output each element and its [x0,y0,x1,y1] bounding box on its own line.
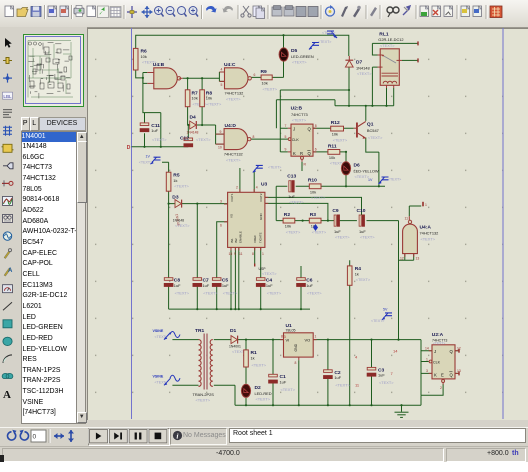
svg-text:5: 5 [285,135,287,139]
wire R4 column [349,260,351,405]
wire junctions [142,34,403,406]
svg-text:<TEXT>: <TEXT> [152,137,167,142]
svg-text:IN2: IN2 [234,238,238,243]
regulator U1 [280,323,317,365]
svg-text:A: A [3,389,11,401]
svg-text:8: 8 [252,252,254,256]
wire U2:B R pin stub [301,162,303,171]
svg-text:6: 6 [254,73,256,77]
svg-text:<TEXT>: <TEXT> [252,362,267,367]
svg-text:VREF: VREF [253,235,257,243]
wire U4:D output to U2:B CLK [249,138,289,140]
svg-text:VI: VI [286,338,290,343]
wire C3 column [371,340,373,406]
svg-text:<TEXT>: <TEXT> [335,235,350,240]
svg-text:<TEXT>: <TEXT> [262,271,277,276]
svg-text:1k: 1k [355,271,359,276]
svg-text:J: J [434,349,436,354]
svg-text:TRAN-2P2S: TRAN-2P2S [193,392,215,397]
svg-text:8: 8 [295,361,297,365]
resistor R6 [133,48,157,70]
svg-text:6: 6 [315,148,317,152]
svg-text:<TEXT>: <TEXT> [333,138,348,143]
svg-text:<TEXT>: <TEXT> [268,166,281,170]
svg-text:C9: C9 [332,208,339,214]
svg-text:15: 15 [229,252,233,256]
generator G1 [139,155,161,165]
svg-text:R: R [300,151,303,156]
svg-text:R3: R3 [310,212,317,218]
svg-text:OUT1: OUT1 [230,193,234,201]
svg-text:5V: 5V [383,308,388,312]
flip-flop U2:B [285,106,317,167]
generator G2 [309,40,331,50]
svg-text:1N4148: 1N4148 [173,219,184,223]
generator G4 [253,165,282,172]
svg-text:1uF: 1uF [359,229,366,234]
svg-text:<TEXT>: <TEXT> [155,381,168,385]
wire U2:A R pin wire [421,384,443,395]
svg-text:<TEXT>: <TEXT> [356,277,371,282]
wire R6 to U4:B inputs [136,70,148,83]
wire Q1 emitter wire [366,138,379,187]
svg-text:R9: R9 [261,69,268,75]
resistor R10 [308,178,326,201]
svg-text:<TEXT>: <TEXT> [292,118,307,123]
svg-text:1: 1 [426,357,428,361]
diode D4 [187,115,199,135]
svg-text:<TEXT>: <TEXT> [139,160,152,164]
svg-text:74HCT132: 74HCT132 [225,91,244,96]
wire C2 column [327,340,329,406]
svg-text:1uF: 1uF [378,373,385,378]
svg-text:1: 1 [262,252,264,256]
svg-text:1V: 1V [146,155,151,159]
resistor R1 [244,350,267,367]
resistor R9 [261,69,278,92]
svg-text:1: 1 [425,203,427,207]
svg-text:10k: 10k [206,96,212,101]
svg-text:1uF: 1uF [151,128,158,133]
svg-text:G2R-1E-DC12: G2R-1E-DC12 [378,37,403,42]
svg-text:<TEXT>: <TEXT> [263,87,278,92]
LED D5 [279,48,314,65]
svg-text:1V: 1V [368,178,373,182]
LED D6 [341,162,379,179]
wire C11 leads [144,113,146,147]
resistor R2 [283,212,301,234]
svg-text:13: 13 [416,257,420,261]
capacitor C4 [256,278,282,296]
svg-text:K: K [293,151,296,156]
svg-text:<TEXT>: <TEXT> [226,157,241,162]
diode D3 [172,194,190,228]
wire ground stub [401,405,403,412]
svg-text:10k: 10k [310,189,316,194]
svg-text:E: E [441,373,444,378]
svg-text:11: 11 [239,252,243,256]
svg-text:<TEXT>: <TEXT> [155,335,168,339]
wire mid ground rail [169,308,310,310]
svg-text:12: 12 [457,347,461,351]
wire relay contact top wire [372,43,418,55]
svg-text:1uF: 1uF [174,283,181,288]
wire relay NO contact out [402,59,418,61]
svg-text:LED-RED: LED-RED [255,391,272,396]
transformer TR1 [193,328,215,403]
svg-text:1: 1 [315,335,317,339]
svg-text:1uF: 1uF [222,283,229,288]
svg-text:<TEXT>: <TEXT> [322,31,335,35]
wire C8 column [168,204,170,310]
output terminal [423,202,427,207]
svg-text:74HCT132: 74HCT132 [420,231,439,236]
capacitor C13 [287,173,304,204]
generator G3 [322,31,337,38]
svg-text:<TEXT>: <TEXT> [175,223,190,228]
capacitor C12 [180,136,211,147]
svg-text:<TEXT>: <TEXT> [311,195,326,200]
svg-text:1uF: 1uF [334,375,341,380]
svg-text:TR1: TR1 [195,328,205,334]
sheet right border [502,28,504,419]
svg-text:<TEXT>: <TEXT> [174,184,189,189]
wire secondary top through D1 to U1 [214,339,284,341]
svg-text:J: J [293,127,295,132]
svg-text:<TEXT>: <TEXT> [380,43,395,48]
relay RL1 [378,32,404,89]
svg-text:1uF: 1uF [334,229,341,234]
svg-text:1uF: 1uF [280,379,287,384]
wire left drop to R2 row [275,186,277,220]
wire R2 R3 C9 C10 row [276,220,398,222]
open pin ends [255,41,459,375]
svg-text:14: 14 [393,349,398,354]
wire U4:A input wires [399,221,414,261]
svg-text:74HCT132: 74HCT132 [224,152,243,157]
svg-text:10k: 10k [141,54,147,59]
svg-text:R10: R10 [308,178,317,184]
svg-text:<TEXT>: <TEXT> [267,291,282,296]
ground [395,412,409,417]
svg-text:9: 9 [220,130,222,134]
svg-text:13: 13 [457,369,461,373]
capacitor C1 [269,374,296,392]
svg-text:<TEXT>: <TEXT> [292,60,307,65]
svg-text:<TEXT>: <TEXT> [196,398,211,403]
svg-text:<TEXT>: <TEXT> [371,319,384,323]
svg-text:D1: D1 [230,328,237,334]
wire U3 sense pin [254,247,256,263]
wire D7 cathode column [348,67,350,106]
svg-text:BC547: BC547 [367,128,379,133]
wire R1 D2 column [245,340,247,406]
svg-text:6: 6 [220,224,222,228]
capacitor C7 [193,278,219,296]
source VSINE bottom [153,375,181,386]
svg-text:U4:B: U4:B [153,62,165,68]
wire C5 column [217,222,228,309]
svg-text:9: 9 [285,148,287,152]
voltage probe G5 [368,177,401,184]
svg-text:GND: GND [259,213,263,221]
svg-text:OUT2: OUT2 [259,193,263,201]
transistor Q1 [354,121,384,139]
svg-text:CLK: CLK [292,138,300,142]
svg-text:12: 12 [400,257,404,261]
svg-text:VSINE: VSINE [153,329,164,333]
generator G6 [371,308,392,324]
svg-text:C12: C12 [180,136,189,142]
svg-text:10k: 10k [329,155,335,160]
svg-text:1uF: 1uF [288,194,295,199]
wire R10 row / C13 [276,185,385,187]
svg-text:<TEXT>: <TEXT> [433,342,445,346]
wire C1 column [272,340,274,406]
svg-text:1k: 1k [251,355,255,360]
svg-text:10k: 10k [192,96,198,101]
flip-flop U2:A [425,332,461,390]
wire U2:A outputs [455,351,459,374]
svg-text:3: 3 [220,200,222,204]
svg-text:LED-GREEN: LED-GREEN [291,54,314,59]
capacitor C5 [212,278,238,296]
svg-text:<TEXT>: <TEXT> [223,291,238,296]
wire C7 column [196,204,198,310]
schematic edit area [87,28,528,420]
wire right long rail [398,221,400,340]
wire node rail y106 [335,105,394,107]
svg-text:<TEXT>: <TEXT> [175,291,190,296]
wire node D horizontal [132,146,189,148]
svg-text:7: 7 [285,124,287,128]
wire secondary bottom drop [214,385,235,405]
wire bottom rail [235,395,421,405]
svg-text:<TEXT>: <TEXT> [203,291,218,296]
NAND gate U4:D [216,123,255,163]
svg-text:<TEXT>: <TEXT> [388,178,401,182]
capacitor C10 [357,208,376,240]
svg-text:<TEXT>: <TEXT> [307,291,322,296]
wire U2:B Q - R12 - Q1 base [313,127,354,129]
wire U1 VO to U2:A rail [313,340,432,396]
capacitor C2 [324,370,351,388]
resistor R4 [347,266,371,285]
wire U4:B output to U4:C inputs [183,72,225,81]
svg-text:U4:D: U4:D [225,123,237,129]
svg-text:5: 5 [221,83,223,87]
wire relay contact 2 wire [372,67,377,106]
overview minimap [23,34,84,107]
diode D7 [345,56,372,76]
LED D2 [241,384,271,401]
wire U4:B input to node D [143,78,161,147]
svg-text:0: 0 [33,434,37,441]
resistor R8 [200,90,222,107]
svg-text:<TEXT>: <TEXT> [256,397,271,402]
wire wire A to D7 column [280,89,349,91]
svg-text:1uF: 1uF [203,283,210,288]
svg-text:8: 8 [315,124,317,128]
svg-text:1N4148: 1N4148 [187,131,199,135]
svg-text:LED-YELLOW: LED-YELLOW [354,168,379,173]
svg-text:<TEXT>: <TEXT> [289,199,304,204]
wire D6 leads [345,152,347,186]
resistor R5 [166,172,189,191]
svg-text:R12: R12 [331,120,340,126]
svg-text:14: 14 [425,347,429,351]
svg-text:D3: D3 [172,194,179,200]
wire top rail VCC [136,35,349,56]
svg-text:1uF: 1uF [306,283,313,288]
wire relay coil leads [387,88,394,106]
source VSINE top [153,329,181,340]
svg-text:<TEXT>: <TEXT> [286,230,301,235]
wire U2:B J/K feedback rail [280,90,288,152]
svg-text:2: 2 [236,186,238,190]
svg-text:1N4148: 1N4148 [356,65,370,70]
svg-text:10: 10 [218,146,222,150]
svg-text:<TEXT>: <TEXT> [360,235,375,240]
wire TR1 primary bottom lead [172,384,198,386]
wire U3 top pin wires [240,168,254,192]
svg-text:D4: D4 [190,115,197,121]
wire C12 leads [187,125,189,147]
capacitor C6 [297,278,323,296]
NAND gate U4:A [400,216,438,260]
svg-text:<TEXT>: <TEXT> [207,102,222,107]
wire R9 wires to D5 [250,61,284,77]
svg-text:4: 4 [221,68,223,72]
svg-text:10k: 10k [285,224,291,229]
svg-text:<TEXT>: <TEXT> [421,237,436,242]
wire R7 leads [187,78,189,125]
wire R5 column [162,162,169,203]
wire R8 leads [201,78,203,125]
svg-text:2: 2 [440,386,442,390]
wire wire B [276,100,335,129]
svg-text:CLK: CLK [433,360,441,364]
svg-text:<TEXT>: <TEXT> [368,135,383,140]
svg-text:Q1: Q1 [367,122,374,128]
capacitor C11 [140,123,167,142]
wire Q1 collector wire [365,106,367,121]
sheet left border [131,28,133,419]
resistor R3 [309,212,327,234]
wire TR1 primary top lead [172,339,198,341]
svg-text:R2: R2 [284,212,291,218]
capacitor C9 [332,208,350,240]
svg-text:K: K [434,373,437,378]
wire C4 column [260,247,262,309]
capacitor C3 [367,367,394,385]
svg-text:U2:A: U2:A [432,332,444,338]
wire C6 column [300,266,302,309]
svg-text:U3: U3 [261,182,268,188]
wire D4 row to U4:D inputs [188,125,225,144]
driver IC U3 [220,182,277,277]
resistor R7 [185,90,207,107]
svg-text:LBL: LBL [3,94,12,99]
svg-text:<TEXT>: <TEXT> [226,97,241,102]
svg-text:C13: C13 [287,173,296,179]
svg-text:T/GATE: T/GATE [259,232,263,243]
svg-text:11: 11 [405,217,409,221]
svg-text:A: A [8,268,13,274]
resistor R12 [331,120,348,143]
wire U3 bottom pins to rail [231,247,239,309]
svg-text:9: 9 [234,252,236,256]
svg-text:78L05: 78L05 [286,329,296,333]
svg-text:VS: VS [230,214,234,218]
svg-text:4: 4 [256,186,258,190]
svg-text:1k: 1k [173,178,177,183]
wire D5 anode drop [283,35,285,48]
NAND gate U4:B [147,62,182,89]
svg-text:D: D [127,145,131,151]
svg-text:8: 8 [253,135,255,139]
svg-text:74HCT73: 74HCT73 [291,112,308,117]
svg-text:10k: 10k [262,81,268,86]
resistor R11 [328,143,345,165]
svg-text:3: 3 [426,369,428,373]
svg-text:U4:C: U4:C [224,62,236,68]
svg-text:<TEXT>: <TEXT> [318,40,331,44]
svg-text:<TEXT>: <TEXT> [281,387,296,392]
svg-text:<TEXT>: <TEXT> [196,137,211,142]
svg-text:1N4001: 1N4001 [229,344,241,348]
svg-text:ENABLE: ENABLE [239,231,243,243]
svg-text:<TEXT>: <TEXT> [335,383,350,388]
NAND gate U4:C [219,62,255,102]
svg-text:1uF: 1uF [266,283,273,288]
svg-text:R11: R11 [328,143,337,149]
diode D1 [229,328,247,354]
svg-text:C10: C10 [357,208,366,214]
svg-text:U2:B: U2:B [291,106,303,112]
svg-text:GND: GND [294,343,298,351]
svg-text:10k: 10k [332,132,338,137]
svg-text:VO: VO [305,338,311,343]
wire U3 right pin wires [265,197,362,220]
wire U2:B Qbar - R11 [313,151,346,153]
svg-text:VSINE: VSINE [153,375,164,379]
capacitor C8 [164,278,190,296]
svg-text:<TEXT>: <TEXT> [312,230,327,235]
svg-text:<TEXT>: <TEXT> [379,380,394,385]
svg-text:<TEXT>: <TEXT> [357,71,372,76]
wire U1 GND column [298,360,300,405]
wire U4:A output to terminal [409,206,421,216]
wire D3 row to U3 pin [169,203,228,205]
